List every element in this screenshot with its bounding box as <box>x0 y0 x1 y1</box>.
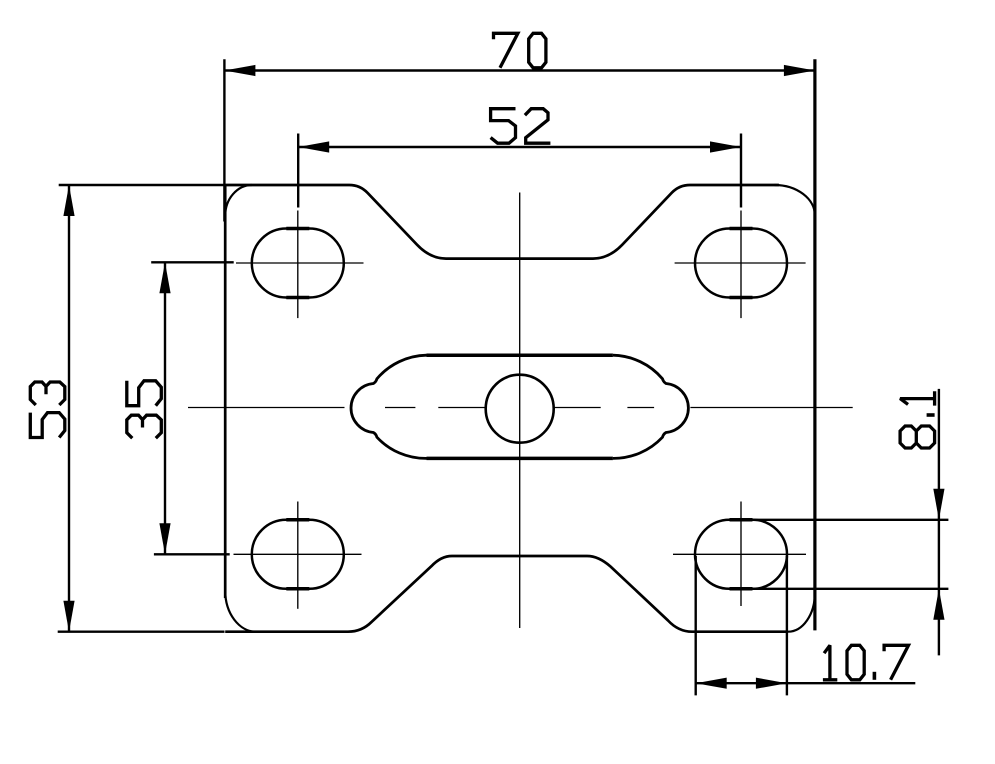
horizontal centerline (dash-dot) <box>188 407 853 409</box>
plate top-right corner arc <box>774 185 815 216</box>
dimension 35 <box>127 262 234 554</box>
dimension 70 <box>224 33 815 221</box>
hole top-left <box>252 229 344 298</box>
dimension 10.7 <box>696 556 916 695</box>
hole top-right <box>695 229 787 298</box>
central circle <box>486 375 554 443</box>
vertical centerline <box>519 193 521 629</box>
plate left edge <box>224 186 227 598</box>
hole bottom-left crosshair <box>297 502 299 609</box>
central slot <box>351 355 688 458</box>
dimension 52 <box>298 109 741 208</box>
hole top-right crosshair <box>740 211 742 319</box>
dimension 8.1 <box>753 389 949 656</box>
dimension 53 <box>30 185 224 632</box>
plate bottom-right corner arc <box>788 593 815 632</box>
hole bottom-right <box>695 520 787 589</box>
hole bottom-right crosshair <box>740 502 742 607</box>
plate top-left corner arc <box>225 185 252 216</box>
hole top-left crosshair <box>297 211 299 319</box>
plate bottom edge with notch <box>225 556 788 632</box>
plate top edge with notch <box>225 185 779 259</box>
plate bottom-left corner arc <box>225 591 256 632</box>
plate right edge <box>813 59 816 630</box>
hole bottom-left <box>252 520 344 589</box>
